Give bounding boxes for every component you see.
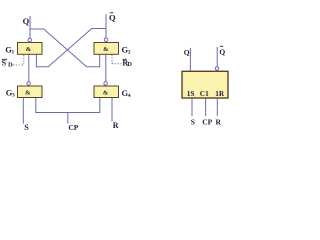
svg-text:D: D <box>127 61 132 68</box>
svg-text:Q: Q <box>23 16 30 26</box>
svg-text:R: R <box>113 121 119 130</box>
svg-text:CP: CP <box>68 123 78 132</box>
svg-text:S: S <box>24 123 29 132</box>
svg-text:Q: Q <box>219 48 225 57</box>
svg-text:Q: Q <box>184 48 190 57</box>
svg-text:C1: C1 <box>200 89 209 98</box>
svg-text:S: S <box>2 59 7 68</box>
svg-text:S: S <box>191 118 195 127</box>
svg-text:&: & <box>103 46 109 53</box>
svg-text:1S: 1S <box>187 89 195 98</box>
svg-text:CP: CP <box>202 118 212 127</box>
svg-text:&: & <box>103 90 109 97</box>
svg-text:D: D <box>8 61 13 68</box>
svg-text:&: & <box>25 90 31 97</box>
svg-text:Q: Q <box>109 13 116 23</box>
svg-text:1R: 1R <box>215 89 225 98</box>
svg-text:R: R <box>216 118 222 127</box>
svg-text:&: & <box>26 46 32 53</box>
